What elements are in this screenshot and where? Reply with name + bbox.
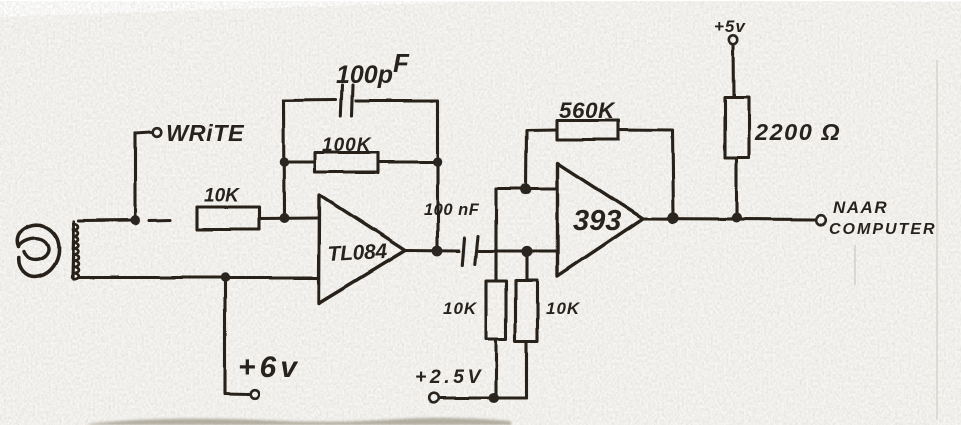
svg-text:+6v: +6v xyxy=(238,351,301,384)
junction feedback left at 100K xyxy=(279,157,289,167)
wire 2200 ohm to output xyxy=(735,158,738,218)
svg-text:560K: 560K xyxy=(559,98,616,123)
junction 2200 ohm at output xyxy=(732,213,742,223)
100K loop wire left xyxy=(284,160,315,163)
terminal +5V xyxy=(729,36,737,44)
resistor R5 560K box xyxy=(557,121,619,140)
feedback left vertical xyxy=(282,101,286,219)
svg-text:+2.5V: +2.5V xyxy=(415,366,484,388)
terminal WRITE xyxy=(153,128,162,137)
paper bottom shade xyxy=(88,418,512,425)
head gap zigzag xyxy=(73,222,75,278)
resistor R2 100K box xyxy=(315,153,378,173)
svg-text:COMPUTER: COMPUTER xyxy=(829,221,937,238)
terminal +2.5V xyxy=(429,393,439,403)
vertical to left 10K xyxy=(494,189,497,282)
vertical cap node to right 10K xyxy=(525,251,528,280)
wire opamp out to cap xyxy=(405,249,459,253)
svg-text:393: 393 xyxy=(573,205,621,237)
560K right lead xyxy=(619,130,674,218)
wire right 10K to rail xyxy=(525,341,528,398)
wire head top to 10K xyxy=(79,218,138,222)
resistor R4 10K right box xyxy=(516,280,538,341)
junction feedback right at 100K xyxy=(433,157,443,167)
wire +5V to 2200 ohm xyxy=(732,45,736,98)
feedback right vertical xyxy=(436,101,439,252)
svg-text:TL084: TL084 xyxy=(327,240,388,266)
svg-text:WRiTE: WRiTE xyxy=(166,120,245,146)
terminal NAAR COMPUTER output xyxy=(816,215,826,225)
wire cap to 393 input xyxy=(479,249,557,252)
wire head bottom to opamp xyxy=(79,276,319,279)
tape head symbol xyxy=(17,225,59,277)
100K loop wire right xyxy=(378,160,438,163)
svg-text:10K: 10K xyxy=(443,299,478,318)
560K left vertical xyxy=(526,130,557,190)
junction 393 non-inverting input / 560K xyxy=(520,183,531,194)
terminal +6V xyxy=(251,390,260,399)
op-amp U1 TL084 triangle xyxy=(319,195,405,303)
svg-text:NAAR: NAAR xyxy=(833,198,888,217)
junction at +6V tap on head bottom wire xyxy=(220,273,229,282)
svg-text:10K: 10K xyxy=(204,186,240,207)
svg-text:2200 Ω: 2200 Ω xyxy=(754,119,841,145)
100pF loop top wire right xyxy=(356,99,438,102)
faint crease right xyxy=(936,60,938,420)
junction at WRITE tap on head top wire xyxy=(131,215,141,225)
393 upper input wire xyxy=(496,187,557,190)
+2.5V rail xyxy=(439,396,527,399)
wire 10K to opamp input xyxy=(259,216,319,220)
100pF loop top wire left xyxy=(284,98,337,102)
resistor R6 2200 box xyxy=(725,97,749,158)
svg-text:100K: 100K xyxy=(322,135,372,156)
junction 393 inverting input node xyxy=(521,246,532,257)
svg-text:+5v: +5v xyxy=(714,17,746,36)
output wire 393 to terminal xyxy=(643,219,815,220)
resistor R1 10K box xyxy=(197,207,259,229)
junction feedback left at op-amp input xyxy=(279,213,289,223)
resistor R3 10K left box xyxy=(486,281,506,339)
junction 560K right at output xyxy=(668,212,679,223)
wire +6V branch xyxy=(225,278,249,395)
wire write vertical xyxy=(136,132,152,220)
junction left 10K at +2.5V rail xyxy=(489,393,499,403)
svg-text:100 nF: 100 nF xyxy=(424,201,480,219)
wire dash after WRITE junction xyxy=(149,218,170,222)
junction at TL084 output xyxy=(432,246,443,257)
comparator U2 393 triangle xyxy=(558,163,644,276)
capacitor C1 100pF plates xyxy=(341,86,342,116)
capacitor C2 100nF plates xyxy=(462,238,464,265)
wire left 10K to rail xyxy=(494,339,497,398)
svg-text:10K: 10K xyxy=(546,299,581,318)
